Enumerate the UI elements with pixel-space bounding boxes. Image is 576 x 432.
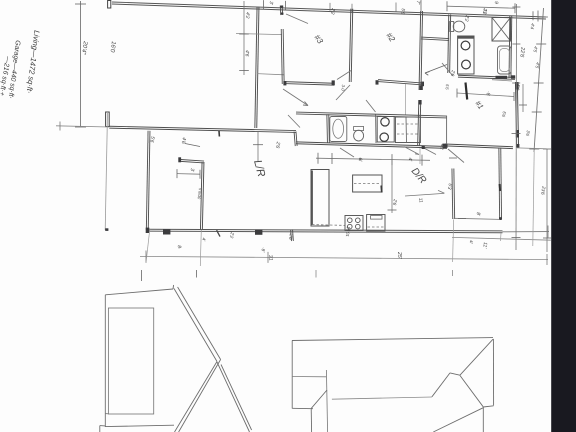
svg-text:·8: ·8 xyxy=(485,91,491,96)
svg-text:4'2: 4'2 xyxy=(244,12,251,19)
svg-text:4'6: 4'6 xyxy=(243,50,250,57)
svg-text:25': 25' xyxy=(396,251,402,260)
svg-text:3·0: 3·0 xyxy=(340,84,346,91)
svg-text:31: 31 xyxy=(267,255,273,261)
svg-text:8·: 8· xyxy=(176,245,182,250)
svg-text:4': 4' xyxy=(201,237,206,241)
svg-text:·8': ·8' xyxy=(261,247,266,253)
